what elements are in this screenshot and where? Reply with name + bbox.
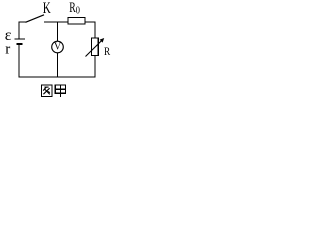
wire: top-left stub from corner to switch hinge bbox=[19, 21, 27, 23]
wire: left side top lead (corner down to battery) bbox=[18, 22, 20, 40]
wire: voltmeter bottom lead bbox=[57, 53, 59, 78]
wire: right side top lead (top-right corner down to rheostat) bbox=[94, 22, 96, 39]
battery cell: short thick plate bbox=[17, 43, 23, 45]
caption 图 (hand-drawn glyph) bbox=[41, 85, 52, 96]
voltmeter V (circle) bbox=[52, 41, 64, 53]
wire: left side bottom lead (battery down to bottom-left corner) bbox=[18, 45, 20, 78]
svg-text:0: 0 bbox=[76, 6, 80, 17]
wire: bottom wire bbox=[19, 76, 96, 78]
wire: voltmeter top lead bbox=[57, 22, 59, 42]
switch K (blade) bbox=[26, 15, 45, 22]
resistor R0 bbox=[68, 17, 85, 24]
svg-text:r: r bbox=[5, 42, 10, 58]
caption 甲 (hand-drawn glyph) bbox=[55, 85, 65, 97]
wire: top middle segment (switch to R0) bbox=[44, 21, 68, 23]
wire: right side bottom lead (rheostat down to bottom-right corner) bbox=[94, 55, 96, 77]
battery cell (EMF source): long plate bbox=[15, 38, 26, 40]
rheostat R (body box) bbox=[92, 38, 99, 55]
svg-text:K: K bbox=[43, 0, 51, 17]
rheostat R (arrow through body) bbox=[86, 40, 103, 57]
wire: top right segment (R0 to top-right corner) bbox=[85, 21, 96, 23]
svg-text:V: V bbox=[54, 42, 62, 53]
svg-text:R: R bbox=[104, 46, 110, 58]
